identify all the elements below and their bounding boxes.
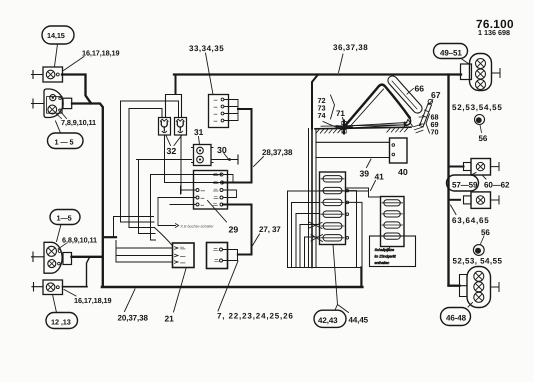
svg-text:14,15: 14,15 [47,31,65,40]
svg-text:28,37,38: 28,37,38 [262,148,293,157]
svg-text:30: 30 [217,145,227,155]
svg-text:52,53, 54,55: 52,53, 54,55 [453,257,503,266]
svg-text:21: 21 [165,314,175,324]
svg-text:6,8,9,10,11: 6,8,9,10,11 [62,236,97,245]
svg-text:56: 56 [479,134,488,143]
svg-text:31: 31 [194,127,204,137]
svg-text:52,53,54,55: 52,53,54,55 [452,103,503,112]
svg-text:36,37,38: 36,37,38 [333,43,368,52]
svg-text:71: 71 [336,109,345,118]
svg-text:49–51: 49–51 [440,49,462,58]
svg-text:enthalten: enthalten [375,261,390,266]
svg-text:im Zündgerät: im Zündgerät [375,254,397,259]
svg-text:1—5: 1—5 [57,214,72,223]
svg-text:56: 56 [481,228,490,237]
svg-text:46-48: 46-48 [446,314,467,323]
svg-text:1 136 698: 1 136 698 [478,28,510,37]
svg-text:32: 32 [167,146,177,156]
svg-text:27, 37: 27, 37 [259,225,281,234]
svg-text:41: 41 [375,171,385,181]
svg-text:40: 40 [398,167,408,177]
svg-text:Schaltplätze: Schaltplätze [375,248,395,253]
svg-text:K.B buchse-schalter: K.B buchse-schalter [181,224,214,229]
svg-text:7,8,9,10,11: 7,8,9,10,11 [61,118,96,127]
svg-text:44,45: 44,45 [349,316,369,325]
svg-text:7, 22,23,24,25,26: 7, 22,23,24,25,26 [217,312,294,321]
svg-text:42,43: 42,43 [318,316,338,325]
svg-text:1 — 5: 1 — 5 [55,138,74,147]
svg-text:60—62: 60—62 [484,181,510,190]
svg-text:63,64,65: 63,64,65 [452,216,490,225]
svg-text:16,17,18,19: 16,17,18,19 [74,296,111,305]
svg-text:57—59: 57—59 [452,181,478,190]
svg-text:39: 39 [360,169,370,179]
svg-text:33,34,35: 33,34,35 [189,44,224,53]
svg-text:29: 29 [229,224,239,234]
svg-text:16,17,18,19: 16,17,18,19 [82,48,119,57]
svg-text:67: 67 [431,90,441,100]
svg-text:74: 74 [318,111,327,120]
svg-text:20,37,38: 20,37,38 [118,314,149,323]
svg-text:12 ,13: 12 ,13 [51,318,71,327]
svg-text:66: 66 [415,83,425,93]
svg-text:70: 70 [431,128,439,137]
